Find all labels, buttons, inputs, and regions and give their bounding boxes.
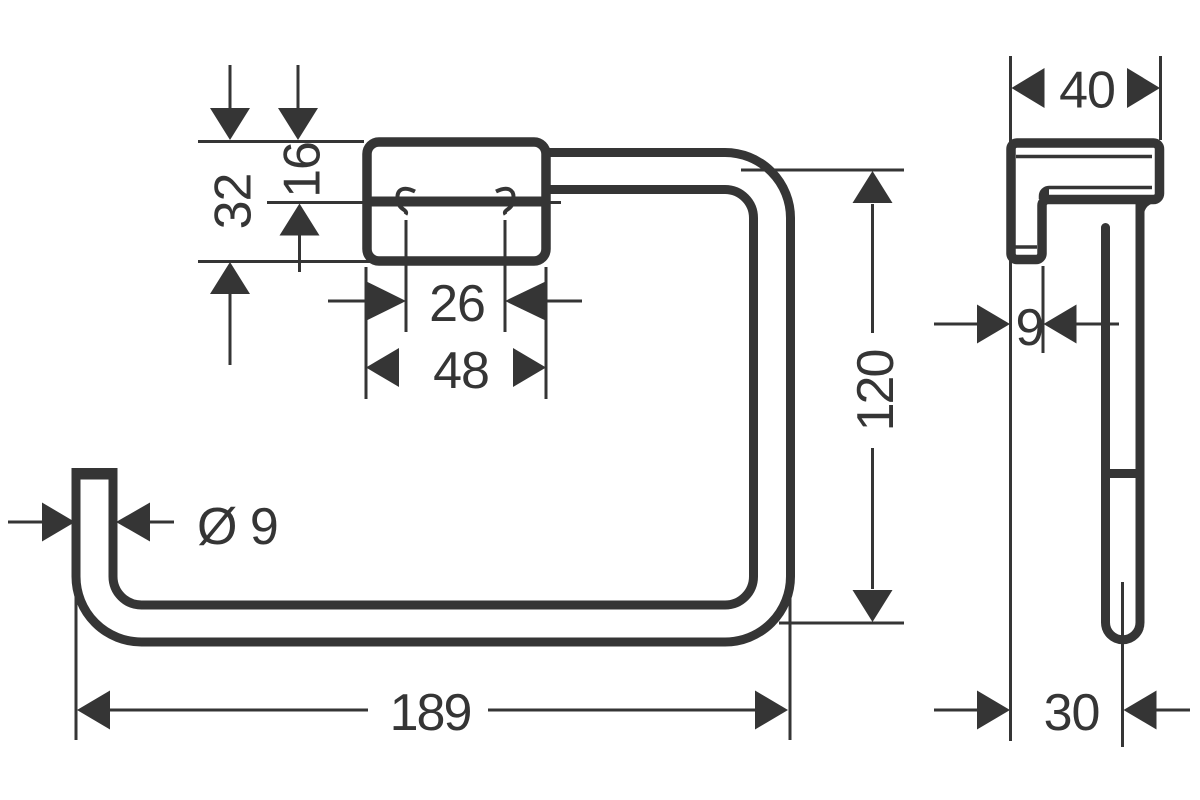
dim dia9 right line — [149, 521, 174, 524]
arrow dia9 right — [116, 503, 150, 542]
dim 32 upper line — [229, 65, 232, 137]
svg-text:Ø 9: Ø 9 — [197, 498, 278, 556]
mounting block — [367, 142, 546, 261]
extension line block right — [545, 267, 548, 399]
arrow 40 left — [1012, 68, 1045, 108]
svg-text:120: 120 — [847, 351, 905, 432]
hanging bar left wall — [1101, 228, 1110, 622]
arrow 30 left — [977, 691, 1010, 730]
arrow 26 right — [505, 282, 546, 321]
extension line ring top center — [741, 169, 904, 172]
dim 9 right line — [1077, 323, 1120, 326]
hanging bar bottom and right wall — [1106, 200, 1141, 640]
dim 16 lower line — [298, 236, 301, 273]
towel ring tube bore — [95, 171, 773, 624]
dim dia9 left line — [8, 521, 43, 524]
arrow 32 top — [210, 108, 250, 140]
arrow 9 left — [977, 305, 1010, 344]
bracket foot inner line — [1016, 245, 1038, 249]
extension line block top — [198, 140, 364, 143]
extension line hook left — [75, 545, 78, 740]
dim 16 dimension line — [267, 201, 561, 204]
dim 32 lower line — [229, 294, 232, 365]
dim 26 left line — [328, 300, 368, 303]
arrow 189 right — [755, 691, 788, 730]
extension line bar end left — [405, 220, 408, 332]
dim 120 upper line — [871, 204, 874, 333]
extension line ring bottom center — [779, 622, 904, 625]
left break arc — [397, 189, 415, 215]
extension line block left — [365, 267, 368, 399]
arrow 32 bottom — [210, 262, 250, 294]
hook end cap — [72, 469, 118, 480]
dim 9 left line — [934, 323, 978, 326]
arrow 26 left — [367, 282, 407, 321]
bracket curl wedge — [1041, 188, 1050, 200]
arrow dia9 left — [42, 503, 75, 542]
extension line ring right — [789, 575, 792, 740]
arrow 16 bottom — [280, 204, 320, 236]
right break arc — [496, 189, 514, 215]
bracket arm inner line — [1041, 188, 1153, 200]
svg-text:30: 30 — [1044, 684, 1100, 742]
arrow 48 left — [366, 348, 399, 387]
bar edge inside block — [370, 197, 543, 207]
dim 16 upper line — [297, 65, 300, 137]
dim 26 right line — [544, 300, 582, 303]
svg-text:26: 26 — [429, 275, 485, 333]
bracket top inner line — [1016, 155, 1152, 159]
svg-text:40: 40 — [1059, 62, 1115, 120]
arrow 40 right — [1127, 68, 1160, 108]
svg-text:32: 32 — [205, 174, 263, 230]
dim 189 right line — [488, 709, 755, 712]
arrow 30 right — [1124, 691, 1157, 730]
bar to arm fillet — [1144, 203, 1157, 216]
arrow 120 top — [853, 171, 893, 203]
svg-text:48: 48 — [433, 342, 489, 400]
extension line bracket right — [1159, 56, 1162, 140]
bar joint line — [1101, 469, 1145, 478]
arrow 189 left — [77, 691, 110, 730]
dim 189 left line — [110, 709, 368, 712]
arrow 48 right — [513, 348, 546, 387]
dim 30 right line — [1157, 709, 1191, 712]
arrow 9 right — [1044, 305, 1077, 344]
svg-text:9: 9 — [1016, 299, 1044, 357]
wall bracket outline (side view) — [1011, 143, 1160, 260]
extension line plate inner — [1042, 266, 1045, 353]
dim 30 left line — [934, 709, 977, 712]
svg-text:16: 16 — [274, 142, 332, 198]
dim 120 lower line — [871, 448, 874, 589]
extension line bracket left — [1009, 56, 1012, 741]
bar center line — [1121, 582, 1124, 747]
svg-text:189: 189 — [390, 684, 471, 742]
arrow 16 top — [278, 108, 318, 140]
arrow 120 bottom — [853, 590, 893, 622]
extension line block bottom — [198, 260, 392, 263]
towel ring tube outer — [95, 171, 773, 624]
extension line bar end right — [504, 220, 507, 332]
